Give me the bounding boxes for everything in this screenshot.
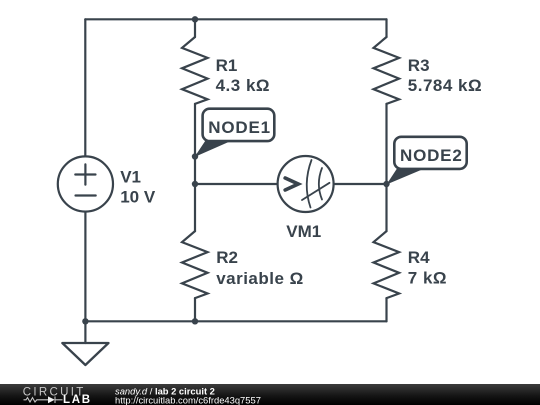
resistor R4: [374, 231, 400, 298]
junction node NODE2: [383, 181, 389, 187]
voltage source V1: [58, 156, 113, 211]
svg-text:LAB: LAB: [63, 394, 92, 405]
junction top middle: [192, 16, 198, 22]
wire right column between R3 and R4: [385, 104, 387, 231]
svg-text:R2: R2: [216, 248, 238, 267]
junction voltmeter left: [192, 181, 198, 187]
svg-text:5.784 kΩ: 5.784 kΩ: [408, 76, 482, 95]
resistor R3: [374, 37, 400, 104]
svg-text:VM1: VM1: [286, 222, 321, 241]
wire voltmeter right: [334, 183, 387, 185]
wire right column R3 top lead: [385, 19, 387, 37]
resistor R1: [182, 37, 208, 104]
wire top horizontal: [85, 18, 386, 20]
svg-text:V1: V1: [120, 168, 141, 187]
svg-text:7 kΩ: 7 kΩ: [408, 269, 447, 288]
svg-text:NODE2: NODE2: [400, 146, 463, 165]
svg-text:R3: R3: [408, 56, 430, 75]
wire voltmeter left: [195, 183, 278, 185]
wire middle column R2 bottom lead: [194, 298, 196, 321]
wire middle column between R1 and R2: [194, 104, 196, 231]
svg-text:10 V: 10 V: [120, 187, 156, 206]
wire middle column R1 top lead: [194, 19, 196, 37]
svg-text:R1: R1: [216, 56, 238, 75]
footer bar: [0, 384, 540, 405]
svg-text:variable Ω: variable Ω: [216, 269, 304, 288]
wire right column R4 bottom lead: [385, 298, 387, 321]
svg-text:http://circuitlab.com/c6frde43: http://circuitlab.com/c6frde43q7557: [115, 394, 261, 405]
resistor R2: [182, 231, 208, 298]
node NODE1 callout: [195, 109, 275, 157]
wire bottom horizontal: [85, 320, 386, 322]
ground: [62, 343, 108, 365]
node NODE2 callout: [387, 137, 467, 185]
junction bottom middle: [192, 318, 198, 324]
svg-text:4.3 kΩ: 4.3 kΩ: [216, 76, 270, 95]
voltmeter VM1: [278, 156, 334, 212]
svg-text:R4: R4: [408, 248, 430, 267]
junction ground: [82, 318, 88, 324]
CircuitLab logo: [23, 387, 92, 405]
svg-text:NODE1: NODE1: [208, 118, 271, 137]
junction node NODE1: [192, 153, 198, 159]
wire left column lower: [84, 212, 86, 322]
wire ground stem: [84, 321, 86, 343]
wire left column upper: [84, 19, 86, 156]
